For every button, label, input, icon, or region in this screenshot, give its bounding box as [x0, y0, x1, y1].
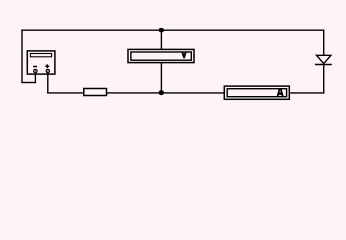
wire resistor to ammeter: [107, 92, 225, 94]
wire battery plus stub: [47, 71, 49, 93]
battery plus label: [45, 65, 49, 67]
battery plus terminal: [46, 69, 49, 72]
diode D1: [315, 55, 332, 64]
battery minus terminal: [34, 69, 37, 72]
voltmeter V: [128, 49, 194, 62]
wire battery minus stub: [34, 71, 36, 83]
wire top horizontal: [21, 29, 324, 31]
wire right vertical below diode: [323, 64, 325, 93]
junction node top: [159, 28, 165, 32]
wire right vertical above diode: [323, 30, 325, 56]
ammeter label A: [277, 89, 284, 96]
wire ammeter to bottom-right corner: [289, 92, 324, 94]
wire voltmeter bottom stub: [160, 63, 162, 93]
wire left vertical: [21, 30, 23, 83]
voltmeter label V: [182, 52, 185, 57]
wire voltmeter top stub: [160, 30, 162, 49]
junction node bottom: [159, 90, 164, 95]
resistor R1: [84, 89, 107, 96]
ammeter A: [224, 86, 289, 99]
wire battery to resistor: [47, 92, 84, 94]
battery minus label: [33, 66, 37, 68]
battery B1: [27, 51, 55, 74]
wire lower-left horizontal: [21, 82, 35, 84]
